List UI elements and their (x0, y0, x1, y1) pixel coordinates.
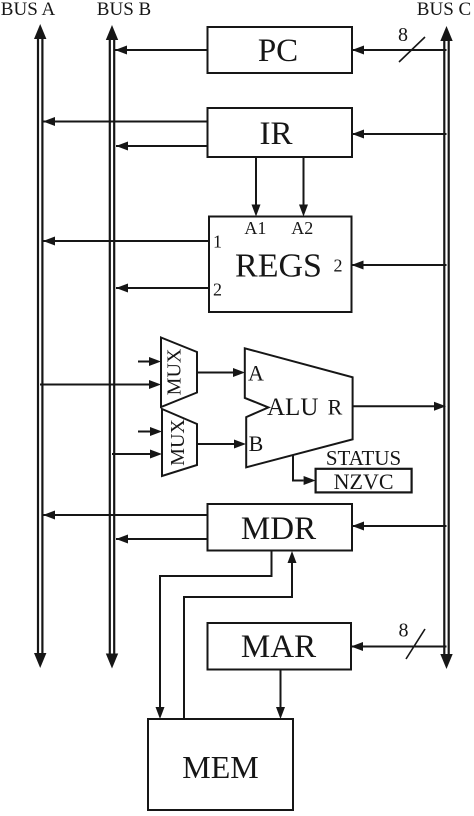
wire BUS C to MAR (351, 642, 447, 651)
wire REGS to BUS B (116, 284, 209, 293)
wire MDR to MEM (156, 551, 272, 720)
wire BUS A to MUX1 input 2 (40, 380, 161, 389)
wire PC to BUS B (115, 46, 208, 55)
wire BUS C to PC (352, 46, 447, 55)
svg-text:BUS B: BUS B (97, 0, 151, 20)
bus C (440, 26, 452, 669)
svg-text:MDR: MDR (241, 511, 316, 547)
wire ALU R to BUS C (353, 402, 446, 411)
svg-text:8: 8 (398, 24, 408, 46)
svg-text:MEM: MEM (182, 749, 258, 785)
svg-text:A2: A2 (291, 218, 313, 238)
svg-text:2: 2 (213, 280, 222, 300)
svg-text:MUX: MUX (167, 419, 189, 466)
wire stub to MUX2 input 1 (138, 427, 162, 436)
wire BUS C to IR (352, 130, 447, 139)
svg-text:REGS: REGS (235, 248, 322, 285)
wire IR to REGS port A2 (299, 157, 308, 217)
wire MUX2 to ALU input B (197, 440, 246, 449)
bus width slash (MAR) (406, 629, 425, 659)
wire IR to BUS A (43, 117, 208, 126)
wire stub to MUX1 input 1 (138, 357, 161, 366)
register file REGS (209, 217, 352, 313)
bus width slash (PC) (399, 37, 425, 62)
wire BUS B to MUX2 input 2 (112, 450, 162, 459)
wire ALU to NZVC (293, 455, 316, 485)
wire IR to BUS B (116, 142, 208, 151)
bus B (106, 25, 118, 669)
svg-text:B: B (249, 431, 264, 456)
wire MUX1 to ALU input A (197, 368, 245, 377)
svg-text:BUS C: BUS C (417, 0, 471, 20)
svg-text:R: R (328, 395, 343, 420)
svg-text:BUS A: BUS A (1, 0, 56, 20)
wire MDR to BUS B (116, 535, 208, 544)
svg-text:STATUS: STATUS (326, 446, 401, 470)
wire IR to REGS port A1 (252, 157, 261, 217)
register MAR (208, 623, 352, 670)
mux MUX1 (161, 338, 197, 408)
wire BUS C to MDR (352, 522, 447, 531)
wire MAR to MEM (276, 670, 285, 720)
svg-text:2: 2 (334, 256, 343, 276)
svg-text:MAR: MAR (241, 629, 316, 665)
svg-text:MUX: MUX (164, 348, 186, 395)
memory MEM (148, 719, 293, 810)
register MDR (208, 504, 353, 551)
svg-text:A1: A1 (244, 218, 266, 238)
svg-text:1: 1 (213, 232, 222, 252)
wire REGS to BUS A (43, 237, 209, 246)
wire MEM to MDR (184, 551, 297, 719)
svg-text:NZVC: NZVC (334, 469, 394, 494)
bus A (34, 24, 46, 668)
register PC (208, 27, 353, 73)
mux MUX2 (162, 409, 197, 476)
svg-text:IR: IR (260, 116, 293, 152)
wire MDR to BUS A (43, 511, 208, 520)
op-amp ALU (245, 348, 353, 467)
svg-text:A: A (248, 361, 264, 386)
svg-text:PC: PC (258, 33, 298, 69)
svg-text:ALU: ALU (267, 394, 318, 421)
register IR (208, 108, 353, 157)
status register NZVC (316, 469, 412, 494)
svg-text:8: 8 (399, 620, 409, 642)
wire BUS C to REGS port 2 (352, 261, 447, 270)
